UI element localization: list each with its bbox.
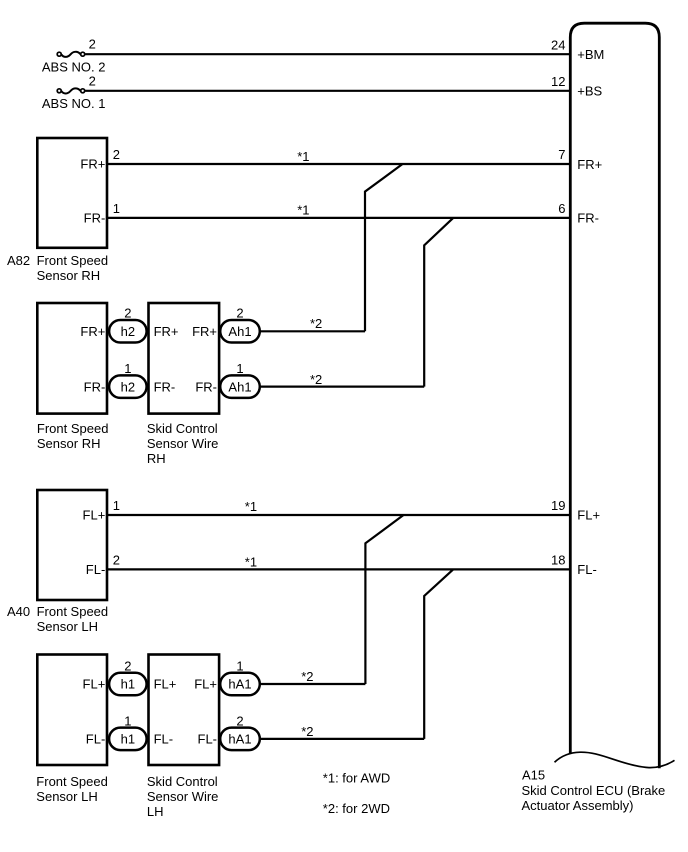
svg-text:6: 6 [558,201,565,216]
svg-text:2: 2 [236,713,243,728]
svg-text:*1: *1 [245,499,257,514]
svg-text:2: 2 [236,306,243,321]
svg-text:*1: *1 [297,203,309,218]
svg-text:FL-: FL- [154,732,174,747]
junction FL+ *2 riser (vertical + diagonal into FL+ wire) [365,515,403,684]
svg-text:Sensor Wire: Sensor Wire [147,436,219,451]
svg-text:1: 1 [236,659,243,674]
svg-text:Actuator Assembly): Actuator Assembly) [522,798,634,813]
svg-text:FL-: FL- [86,562,106,577]
svg-text:Sensor RH: Sensor RH [37,436,101,451]
svg-text:A40: A40 [7,604,30,619]
svg-text:*1: *1 [245,555,257,570]
ECU A15 torn-edge wave [555,752,675,767]
svg-text:FR-: FR- [154,379,176,394]
svg-text:1: 1 [124,713,131,728]
connector h2 FR- oval [109,375,147,398]
wire +BM (fuse ABS NO.2 to ECU pin 24) [85,53,570,55]
svg-text:FL+: FL+ [577,508,600,523]
svg-text:*2: *2 [301,669,313,684]
connector hA1 FL+ oval [220,673,260,696]
svg-text:FL-: FL- [86,732,106,747]
junction FR+ *2 riser (vertical + diagonal into FR+ wire) [365,164,403,331]
svg-text:1: 1 [236,361,243,376]
svg-text:LH: LH [147,804,164,819]
svg-text:Skid Control: Skid Control [147,774,218,789]
svg-text:h1: h1 [121,677,135,692]
svg-text:Ah1: Ah1 [228,324,251,339]
wire FR- *2 (Ah1 to riser) [260,386,424,388]
svg-text:Front Speed: Front Speed [37,604,109,619]
svg-text:FL-: FL- [577,562,597,577]
svg-text:Sensor LH: Sensor LH [37,619,98,634]
svg-text:hA1: hA1 [228,732,251,747]
svg-text:*1: *1 [297,149,309,164]
svg-text:hA1: hA1 [228,677,251,692]
svg-text:Skid Control ECU (Brake: Skid Control ECU (Brake [522,783,666,798]
svg-text:FL+: FL+ [83,508,106,523]
svg-text:2: 2 [89,36,96,51]
connector Front Speed Sensor LH box (harness side) [37,655,107,766]
svg-text:1: 1 [124,361,131,376]
svg-text:*2: for 2WD: *2: for 2WD [323,801,390,816]
connector Skid Control Sensor Wire LH box [149,655,220,766]
svg-text:FR-: FR- [195,379,217,394]
connector hA1 FL- oval [220,728,260,751]
connector h1 FL+ oval [109,673,147,696]
svg-text:h2: h2 [121,379,135,394]
svg-text:FL+: FL+ [194,677,217,692]
connector h2 FR+ oval [109,320,147,343]
connector A40 Front Speed Sensor LH box [37,490,107,600]
svg-text:RH: RH [147,451,166,466]
svg-text:Front Speed: Front Speed [37,421,109,436]
svg-text:1: 1 [113,498,120,513]
connector Ah1 FR+ oval [220,320,260,343]
connector Ah1 FR- oval [220,375,260,398]
wire FL- *1 (A40 to ECU pin 18) [107,568,570,570]
svg-text:A15: A15 [522,767,545,782]
fuse ABS NO. 2 [57,52,84,57]
svg-text:Sensor RH: Sensor RH [37,268,101,283]
svg-text:+BM: +BM [577,47,604,62]
wire FL- *2 (hA1 to riser) [260,738,424,740]
svg-text:FR-: FR- [577,211,599,226]
svg-text:FR+: FR+ [154,324,179,339]
svg-text:Ah1: Ah1 [228,379,251,394]
svg-text:FR-: FR- [84,379,106,394]
connector Skid Control Sensor Wire RH box [149,303,220,414]
svg-text:FR+: FR+ [80,157,105,172]
wire +BS (fuse ABS NO.1 to ECU pin 12) [85,90,570,92]
svg-text:FL-: FL- [198,732,218,747]
wire FL+ *1 (A40 to ECU pin 19) [107,514,570,516]
svg-text:*1: for AWD: *1: for AWD [323,771,390,786]
svg-text:Skid Control: Skid Control [147,421,218,436]
svg-text:A82: A82 [7,253,30,268]
svg-text:7: 7 [558,147,565,162]
svg-text:Sensor LH: Sensor LH [36,789,97,804]
fuse ABS NO. 1 [57,88,84,93]
svg-text:FR-: FR- [84,211,106,226]
svg-text:*2: *2 [301,724,313,739]
svg-text:+BS: +BS [577,84,602,99]
svg-text:FR+: FR+ [80,324,105,339]
svg-text:h1: h1 [121,732,135,747]
svg-text:1: 1 [113,201,120,216]
svg-text:2: 2 [113,147,120,162]
svg-text:*2: *2 [310,316,322,331]
junction FL- *2 riser (vertical + diagonal into FL- wire) [424,569,453,739]
wire FL+ *2 (hA1 to riser) [260,683,366,685]
wire FR+ *1 (A82 to ECU pin 7) [107,163,570,165]
svg-text:19: 19 [551,498,565,513]
ECU A15 Skid Control ECU outline [570,23,659,768]
svg-text:ABS NO. 2: ABS NO. 2 [42,59,106,74]
svg-text:FL+: FL+ [154,677,177,692]
junction FR- *2 riser (vertical + diagonal into FR- wire) [424,218,453,387]
svg-text:ABS NO. 1: ABS NO. 1 [42,96,106,111]
svg-text:2: 2 [113,553,120,568]
svg-text:FR+: FR+ [577,157,602,172]
svg-text:Front Speed: Front Speed [36,774,108,789]
svg-text:18: 18 [551,553,565,568]
svg-text:*2: *2 [310,372,322,387]
svg-text:2: 2 [89,74,96,89]
svg-text:Front Speed: Front Speed [37,253,109,268]
connector h1 FL- oval [109,728,147,751]
svg-text:2: 2 [124,306,131,321]
svg-text:2: 2 [124,659,131,674]
svg-text:FR+: FR+ [192,324,217,339]
connector A82 Front Speed Sensor RH box [37,138,107,248]
svg-text:Sensor Wire: Sensor Wire [147,789,219,804]
wire FR+ *2 (Ah1 to riser) [260,330,365,332]
wire FR- *1 (A82 to ECU pin 6) [107,217,570,219]
svg-text:h2: h2 [121,324,135,339]
svg-text:FL+: FL+ [83,677,106,692]
connector Front Speed Sensor RH box (harness side) [37,303,107,414]
svg-text:24: 24 [551,37,565,52]
svg-text:12: 12 [551,74,565,89]
